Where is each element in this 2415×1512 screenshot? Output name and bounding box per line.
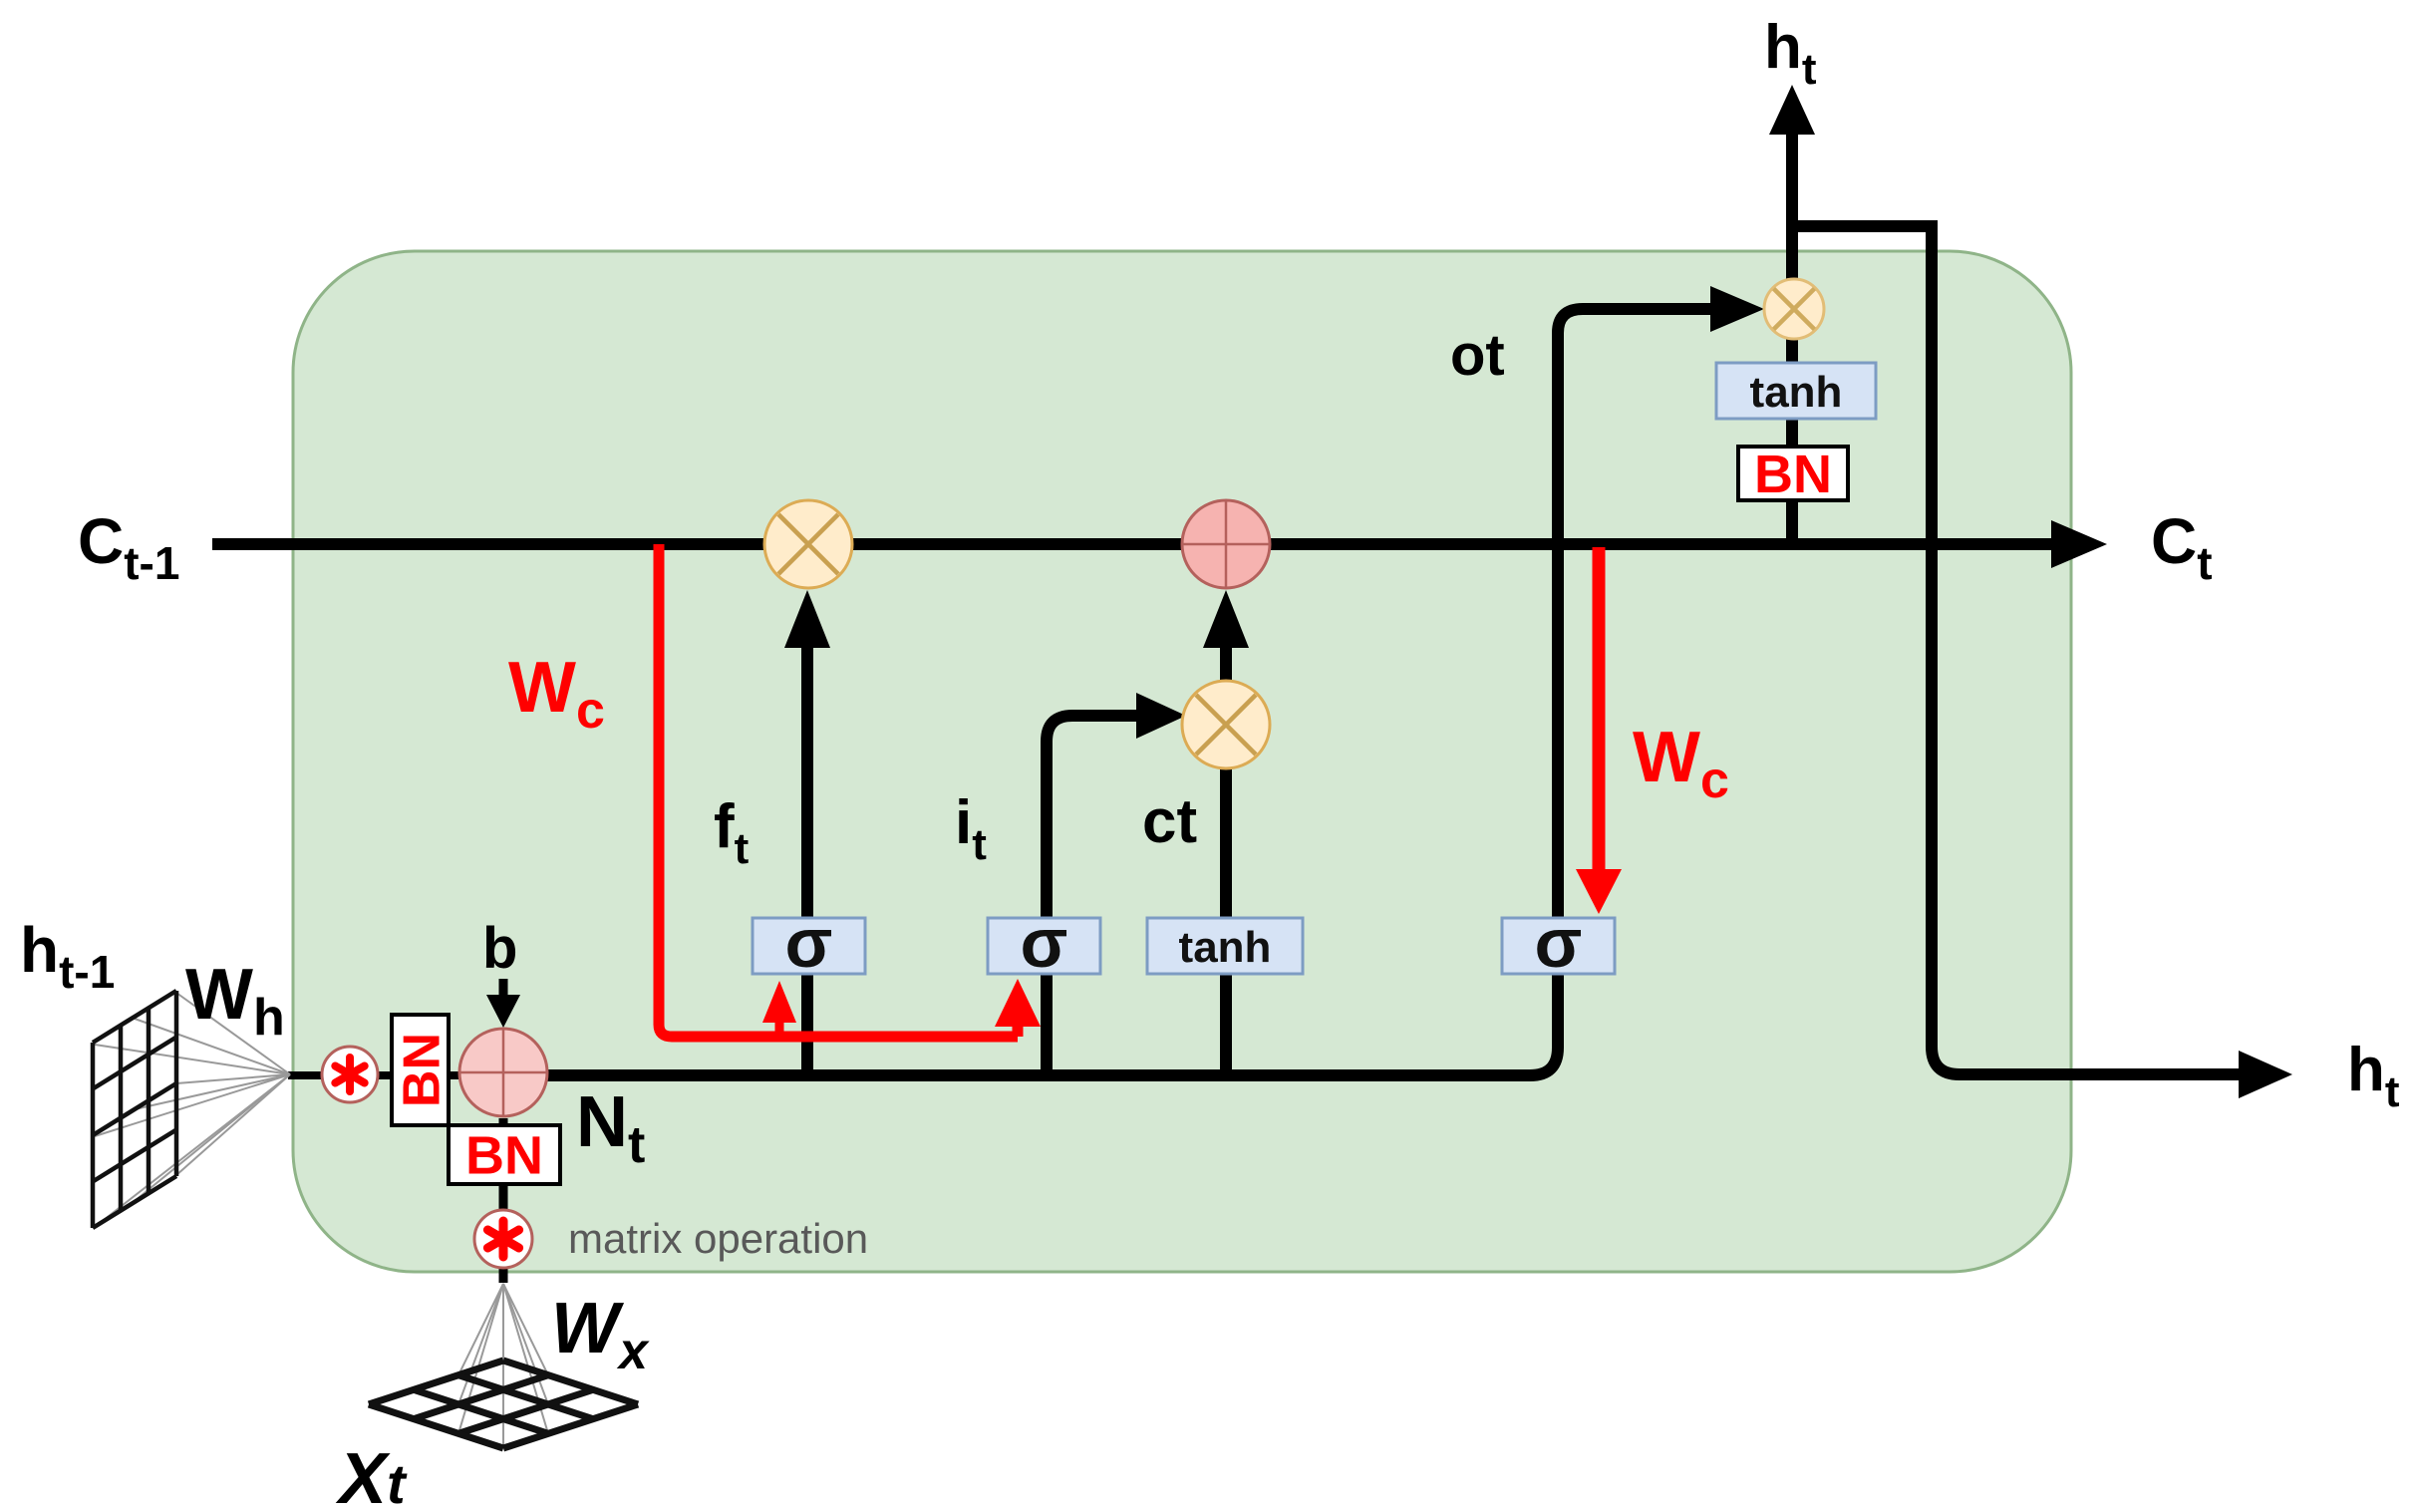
svg-text:σ: σ xyxy=(785,904,833,982)
svg-text:matrix operation: matrix operation xyxy=(568,1215,868,1262)
svg-text:ct: ct xyxy=(1142,787,1197,856)
svg-text:BN: BN xyxy=(1754,445,1832,504)
svg-text:b: b xyxy=(482,916,517,981)
svg-text:σ: σ xyxy=(1535,904,1583,982)
svg-text:tanh: tanh xyxy=(1179,923,1272,972)
svg-text:tanh: tanh xyxy=(1750,368,1843,417)
svg-text:σ: σ xyxy=(1021,904,1068,982)
svg-text:ot: ot xyxy=(1450,323,1505,388)
svg-text:BN: BN xyxy=(465,1126,543,1186)
svg-text:BN: BN xyxy=(394,1033,452,1107)
